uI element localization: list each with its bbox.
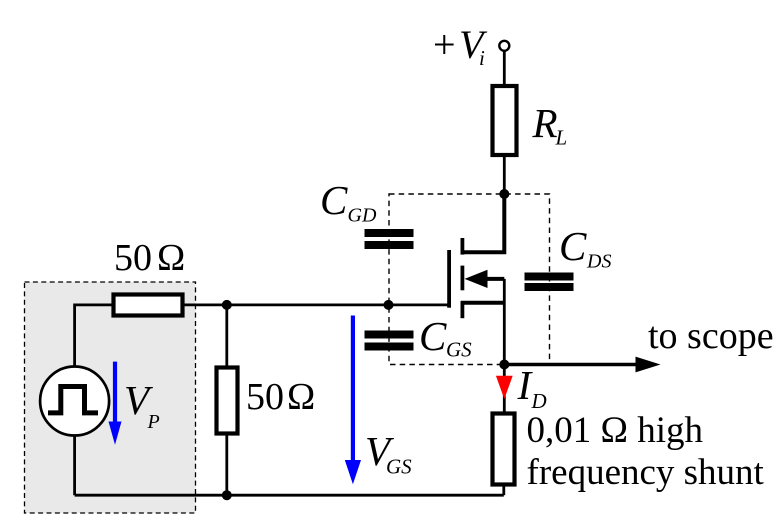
wire drain lead bbox=[461, 194, 504, 252]
wire termination top bbox=[225, 305, 228, 367]
resistor shunt 0.01 ohm bbox=[493, 414, 515, 485]
wire Vi to RL bbox=[503, 51, 506, 85]
terminal +Vi bbox=[499, 41, 509, 51]
dashed parasitic capacitance box bbox=[389, 194, 550, 365]
source box (gray dashed enclosure) bbox=[25, 282, 196, 513]
resistor R1 50ohm series bbox=[114, 295, 183, 316]
wire RL to drain node bbox=[503, 155, 506, 194]
wire generator top (VP to 50ohm series) bbox=[75, 305, 112, 367]
node junction bottom rail bbox=[222, 490, 232, 500]
capacitor CGD bbox=[365, 229, 414, 249]
wire to scope bbox=[504, 357, 660, 373]
label VP bbox=[124, 377, 160, 433]
svg-text:50: 50 bbox=[114, 237, 152, 279]
svg-text:P: P bbox=[147, 411, 160, 433]
label +Vi bbox=[433, 22, 488, 70]
wire shunt to bottom rail bbox=[502, 484, 505, 495]
label RL bbox=[532, 100, 568, 150]
svg-text:+: + bbox=[433, 22, 456, 67]
node gate junction (CGD/CGS tap) bbox=[384, 300, 394, 310]
wire generator bottom (VP to bottom rail) bbox=[73, 436, 76, 496]
svg-text:Ω: Ω bbox=[287, 376, 315, 418]
label CGD bbox=[320, 177, 377, 227]
current arrow ID (red) bbox=[496, 376, 513, 399]
svg-text:R: R bbox=[532, 100, 558, 146]
pulse generator VP bbox=[40, 367, 109, 436]
node junction 50ohm termination top bbox=[222, 300, 232, 310]
svg-text:C: C bbox=[559, 223, 587, 269]
svg-text:C: C bbox=[419, 313, 447, 359]
svg-text:C: C bbox=[320, 177, 348, 223]
svg-text:to scope: to scope bbox=[648, 315, 774, 357]
wire source node to shunt bbox=[503, 365, 506, 413]
transistor Q1 MOSFET bbox=[449, 238, 504, 318]
resistor RL bbox=[493, 86, 517, 155]
svg-text:i: i bbox=[479, 46, 485, 70]
voltage arrow VGS (blue) bbox=[345, 316, 361, 485]
svg-text:GS: GS bbox=[386, 455, 412, 479]
wire termination bottom bbox=[225, 435, 228, 496]
svg-text:L: L bbox=[555, 126, 568, 150]
wire bottom rail bbox=[75, 494, 504, 497]
svg-text:0,01 Ω high: 0,01 Ω high bbox=[527, 410, 704, 451]
label to scope bbox=[648, 315, 774, 357]
label CGS bbox=[419, 313, 472, 362]
svg-text:GS: GS bbox=[446, 338, 472, 362]
capacitor CGS bbox=[365, 331, 414, 351]
voltage arrow VP (blue) bbox=[109, 362, 122, 445]
label 50ohm (series) bbox=[114, 237, 185, 279]
label VGS bbox=[365, 428, 412, 479]
svg-text:50: 50 bbox=[246, 376, 284, 418]
label 50ohm (termination) bbox=[246, 376, 315, 418]
label ID bbox=[517, 362, 547, 413]
label 0,01 ohm high frequency shunt bbox=[527, 410, 765, 493]
label CDS bbox=[559, 223, 611, 273]
capacitor CDS bbox=[525, 273, 574, 292]
node source junction bbox=[499, 360, 509, 370]
svg-text:frequency shunt: frequency shunt bbox=[527, 452, 765, 493]
svg-text:Ω: Ω bbox=[157, 237, 185, 279]
wire source lead bbox=[461, 279, 504, 365]
node drain junction bbox=[499, 189, 509, 199]
svg-text:DS: DS bbox=[586, 251, 611, 273]
wire gate rail (series resistor to MOSFET gate) bbox=[183, 303, 450, 306]
svg-text:GD: GD bbox=[348, 205, 377, 227]
resistor R2 50ohm termination bbox=[217, 368, 238, 434]
